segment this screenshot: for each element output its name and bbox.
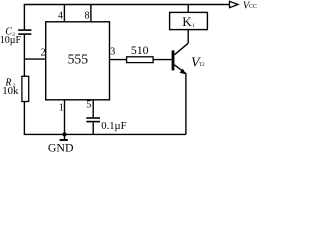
- svg-text:10µF: 10µF: [0, 35, 21, 46]
- transistor emitter diagonal: [174, 65, 186, 74]
- node junction dot pin1-ground: [62, 132, 66, 136]
- wire R1 to bottom rail: [23, 102, 25, 135]
- wire pin 1 to ground rail: [64, 100, 66, 135]
- svg-text:GND: GND: [48, 141, 74, 154]
- svg-text:0.1µF: 0.1µF: [101, 121, 126, 132]
- capacitor C3 0.1uF: [86, 118, 100, 122]
- svg-text:1: 1: [192, 23, 195, 29]
- wire left branch upper (rail to C2): [23, 5, 25, 30]
- Vcc arrow: [230, 1, 239, 7]
- wire C3 to ground rail: [92, 122, 94, 134]
- wire pin 5 to C3: [92, 100, 94, 118]
- svg-text:5: 5: [86, 99, 91, 110]
- svg-text:CC: CC: [249, 4, 257, 10]
- svg-text:T2: T2: [199, 62, 205, 68]
- transistor base bar: [172, 50, 175, 70]
- capacitor C2: [18, 30, 31, 34]
- wire resistor to base: [153, 59, 172, 61]
- svg-text:10k: 10k: [2, 85, 19, 97]
- resistor R1 10k body: [22, 76, 29, 101]
- wire emitter down to ground rail: [185, 73, 187, 134]
- wire pin 4 to rail: [63, 5, 65, 22]
- wire C2 to R1: [23, 35, 25, 77]
- wire top Vcc rail: [24, 4, 230, 6]
- transistor Q1 VT2: [172, 43, 189, 74]
- transistor emitter arrowhead: [180, 69, 186, 75]
- svg-text:510: 510: [131, 43, 149, 57]
- svg-text:3: 3: [110, 47, 115, 58]
- wire pin 3 to resistor: [110, 59, 127, 61]
- svg-text:K: K: [182, 14, 192, 29]
- svg-text:8: 8: [85, 11, 90, 22]
- wire pin 8 to rail: [90, 5, 92, 22]
- svg-text:4: 4: [58, 11, 63, 22]
- op-amp U1 555 timer box: [46, 22, 110, 100]
- relay K1 box: [170, 12, 208, 29]
- svg-text:1: 1: [59, 102, 64, 113]
- wire pin 2: [24, 58, 45, 60]
- wire K1 to collector: [187, 30, 189, 44]
- ground: [60, 134, 68, 140]
- wire K1 to rail: [187, 5, 189, 13]
- wire bottom ground rail: [24, 133, 186, 135]
- svg-text:2: 2: [41, 47, 46, 58]
- svg-text:555: 555: [68, 51, 89, 66]
- resistor 510 body: [127, 57, 154, 63]
- transistor collector diagonal: [174, 43, 188, 55]
